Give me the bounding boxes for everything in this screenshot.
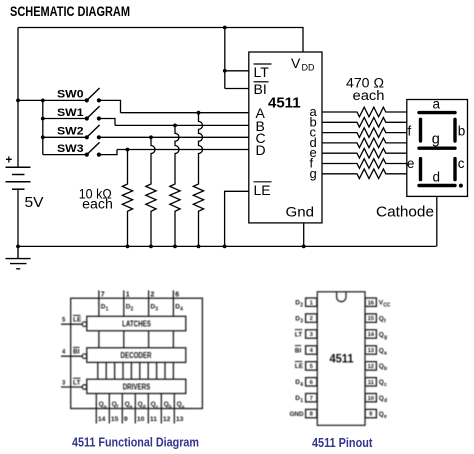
wire battery negative to rail — [17, 189, 19, 246]
input BI line — [61, 355, 82, 357]
overline BI functional — [73, 346, 80, 348]
node R1 rail — [126, 245, 130, 249]
svg-text:c: c — [156, 405, 159, 410]
input wire D3 — [148, 290, 150, 316]
node branch SW2 — [41, 135, 45, 139]
svg-text:SW1: SW1 — [57, 107, 84, 119]
svg-text:2: 2 — [310, 316, 313, 322]
wire BI tie — [225, 88, 249, 90]
svg-text:GND: GND — [290, 411, 304, 418]
pin box left — [306, 409, 317, 417]
svg-text:14: 14 — [98, 416, 106, 423]
overline LE functional — [73, 314, 81, 316]
pin box left — [306, 314, 317, 322]
svg-text:each: each — [82, 196, 113, 211]
svg-text:d: d — [143, 404, 146, 410]
node branch SW1 — [41, 117, 45, 121]
drivers box — [87, 379, 186, 393]
node R2 rail — [149, 245, 153, 249]
svg-text:DECODER: DECODER — [121, 351, 152, 360]
wire output Qg — [95, 394, 97, 424]
pin box right — [365, 378, 376, 386]
svg-text:LATCHES: LATCHES — [122, 320, 151, 329]
switch SW2 — [43, 125, 101, 139]
svg-text:LE: LE — [254, 182, 271, 198]
node LE rail — [223, 245, 227, 249]
resistor R11 470 row g — [322, 169, 407, 179]
svg-text:g: g — [104, 405, 107, 410]
svg-text:2: 2 — [131, 307, 134, 313]
wire decoder to drivers 2 — [105, 362, 107, 379]
pin box right — [365, 394, 376, 402]
svg-text:4511: 4511 — [330, 354, 355, 366]
ground — [6, 246, 31, 268]
wire cathode to rail — [436, 196, 438, 246]
wire decoder to drivers 10 — [172, 362, 174, 379]
svg-text:g: g — [432, 132, 440, 148]
svg-text:4511: 4511 — [268, 95, 301, 112]
wire row B to IC — [115, 124, 249, 126]
wire decoder to drivers 4 — [122, 362, 124, 379]
wire decoder to drivers 1 — [97, 362, 99, 379]
wire decoder to drivers 7 — [147, 362, 149, 379]
svg-text:LE: LE — [295, 363, 304, 370]
svg-text:4: 4 — [300, 382, 303, 388]
pin box left — [306, 330, 317, 338]
node VDD tie junction — [223, 26, 227, 30]
wire LT/BI tie-high vertical — [224, 28, 226, 89]
svg-text:LT: LT — [295, 331, 302, 338]
node R4 rail — [197, 245, 201, 249]
battery B1 — [6, 167, 31, 189]
wire latches to decoder 3 — [148, 331, 150, 348]
decimal point — [459, 184, 463, 188]
svg-text:4: 4 — [180, 307, 183, 313]
svg-text:g: g — [384, 334, 387, 340]
svg-text:1: 1 — [126, 292, 130, 299]
node R4 top on A row — [197, 111, 201, 115]
svg-text:CC: CC — [383, 303, 391, 309]
svg-text:BI: BI — [295, 347, 302, 354]
pin box right — [365, 409, 376, 417]
wire output Qa — [173, 394, 175, 424]
svg-text:13: 13 — [368, 348, 375, 354]
wire LT tie — [225, 70, 249, 72]
op-amp U1 4511 IC box — [249, 52, 322, 223]
overline left label pin 5 — [295, 361, 303, 363]
wire decoder to drivers 5 — [130, 362, 132, 379]
segment a — [419, 111, 455, 114]
svg-text:Gnd: Gnd — [286, 204, 315, 220]
resistor R2 10k with hop over D row — [146, 137, 156, 246]
functional outer box — [71, 298, 203, 408]
svg-text:V: V — [291, 55, 301, 71]
svg-text:a: a — [384, 350, 387, 356]
input LT line — [61, 386, 82, 388]
wire latches to decoder 2 — [123, 331, 125, 348]
switch SW3 — [43, 142, 117, 157]
segment f — [419, 119, 422, 141]
svg-text:+: + — [6, 154, 13, 166]
wire output Qc — [147, 394, 149, 424]
input wire D1 — [98, 290, 100, 316]
svg-text:12: 12 — [368, 364, 374, 370]
wire bottom ground rail — [18, 245, 436, 247]
notch — [337, 292, 346, 302]
wire decoder to drivers 9 — [164, 362, 166, 379]
latches box — [87, 316, 186, 331]
svg-text:d: d — [433, 169, 441, 184]
resistor R4 10k with hops over B C D rows — [193, 113, 203, 247]
svg-text:12: 12 — [163, 416, 171, 423]
pin box right — [365, 362, 376, 370]
svg-text:4511 Pinout: 4511 Pinout — [312, 435, 373, 450]
wire row D to IC — [117, 149, 249, 151]
seven segment display box — [407, 100, 468, 197]
svg-text:b: b — [384, 366, 387, 372]
wire output Qe — [121, 394, 123, 424]
svg-text:e: e — [130, 405, 133, 410]
svg-text:4511 Functional Diagram: 4511 Functional Diagram — [72, 435, 199, 450]
resistor R6 470 row b — [322, 118, 407, 128]
pin box left — [306, 346, 317, 354]
svg-text:SW0: SW0 — [57, 89, 84, 101]
svg-text:6: 6 — [175, 292, 179, 299]
resistor R1 10k — [122, 150, 132, 247]
node LT tie junction — [223, 69, 227, 73]
svg-text:f: f — [408, 124, 412, 139]
node R3 top on B row — [173, 124, 177, 128]
resistor R5 470 row a — [322, 107, 407, 117]
resistor R9 470 row e — [322, 148, 407, 158]
switch SW1 — [43, 106, 115, 125]
wire switch branch bus — [42, 100, 44, 154]
resistor R8 470 row d — [322, 138, 407, 148]
segment c — [453, 159, 456, 180]
svg-text:a: a — [433, 97, 441, 112]
resistor R7 470 row c — [322, 128, 407, 138]
svg-text:5V: 5V — [25, 194, 44, 211]
svg-text:c: c — [384, 382, 387, 388]
svg-text:3: 3 — [300, 318, 303, 324]
wire decoder to drivers 3 — [114, 362, 116, 379]
svg-text:11: 11 — [368, 380, 375, 386]
svg-text:g: g — [310, 166, 317, 181]
svg-text:LT: LT — [254, 64, 270, 80]
node battery rail junction — [16, 245, 20, 249]
wire top rail from battery+ to VDD — [18, 28, 303, 53]
svg-text:2: 2 — [300, 303, 303, 309]
svg-text:16: 16 — [368, 300, 375, 306]
LE bubble — [82, 322, 87, 327]
svg-text:SCHEMATIC DIAGRAM: SCHEMATIC DIAGRAM — [10, 4, 130, 19]
svg-text:1: 1 — [106, 307, 109, 313]
input LE line — [61, 323, 82, 325]
overline left label pin 4 — [295, 345, 301, 347]
wire output Qd — [134, 394, 136, 424]
wire left bus — [17, 28, 19, 168]
wire LE to ground — [225, 191, 249, 246]
decoder box — [87, 348, 186, 363]
resistor R10 470 row f — [322, 159, 407, 169]
svg-text:2: 2 — [151, 292, 155, 299]
svg-text:BI: BI — [73, 349, 80, 356]
svg-text:DRIVERS: DRIVERS — [123, 382, 151, 391]
input wire D4 — [172, 290, 174, 316]
svg-text:LE: LE — [73, 317, 82, 324]
svg-text:7: 7 — [101, 292, 105, 299]
input wire D2 — [123, 290, 125, 316]
svg-text:a: a — [182, 405, 185, 410]
node R1 top on D row — [126, 148, 130, 152]
BI bubble — [82, 354, 87, 359]
wire latches to decoder 4 — [172, 331, 174, 348]
svg-text:7: 7 — [310, 396, 313, 402]
svg-text:BI: BI — [254, 81, 267, 97]
svg-text:e: e — [384, 414, 387, 420]
pin box left — [306, 394, 317, 402]
svg-text:15: 15 — [368, 316, 375, 322]
svg-text:D: D — [256, 142, 266, 158]
node SW0 bus junction — [16, 99, 20, 103]
LT bubble — [82, 385, 87, 390]
wire latches to decoder 1 — [98, 331, 100, 348]
svg-text:10: 10 — [368, 396, 374, 402]
node R2 top on C row — [149, 135, 153, 139]
svg-text:Cathode: Cathode — [376, 205, 434, 221]
svg-text:LT: LT — [73, 380, 80, 387]
wire Gnd to rail — [303, 223, 305, 247]
wire row C to IC — [99, 136, 249, 138]
wire decoder to drivers 6 — [139, 362, 141, 379]
pin box left — [306, 378, 317, 386]
wire decoder to drivers 8 — [156, 362, 158, 379]
node branch SW0 — [41, 99, 45, 103]
segment e — [419, 159, 422, 180]
svg-text:SW2: SW2 — [57, 126, 84, 138]
switch SW0 — [18, 88, 121, 113]
pin box left — [306, 298, 317, 306]
overline LT functional — [73, 377, 81, 379]
wire output Qf — [108, 394, 110, 424]
svg-text:3: 3 — [155, 307, 158, 313]
svg-text:SW3: SW3 — [57, 143, 84, 155]
pin box right — [365, 346, 376, 354]
segment b — [453, 119, 456, 141]
node Gnd rail — [302, 245, 306, 249]
svg-text:c: c — [458, 156, 465, 171]
pin box right — [365, 330, 376, 338]
svg-text:9: 9 — [124, 416, 128, 423]
svg-text:10: 10 — [137, 416, 145, 423]
segment g — [419, 146, 455, 149]
pin box right — [365, 298, 376, 306]
overline left label pin 3 — [295, 329, 303, 331]
svg-text:14: 14 — [368, 332, 375, 338]
svg-text:d: d — [384, 398, 387, 404]
svg-text:b: b — [458, 124, 466, 139]
svg-text:e: e — [407, 156, 415, 171]
svg-text:15: 15 — [111, 416, 119, 423]
svg-text:DD: DD — [302, 63, 315, 73]
svg-text:each: each — [353, 88, 385, 103]
svg-text:1: 1 — [300, 398, 303, 404]
wire output Qb — [160, 394, 162, 424]
resistor R3 10k with hops over C and D rows — [170, 125, 180, 246]
svg-text:b: b — [169, 404, 172, 410]
pin box right — [365, 314, 376, 322]
wire row A to IC — [121, 112, 249, 114]
svg-text:13: 13 — [176, 416, 184, 423]
segment d — [419, 184, 455, 187]
node R3 rail — [173, 245, 177, 249]
svg-text:11: 11 — [150, 416, 157, 423]
pinout IC body — [317, 292, 365, 426]
pin box left — [306, 362, 317, 370]
